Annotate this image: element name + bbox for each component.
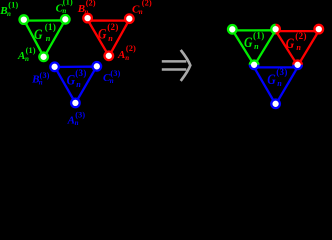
node A_n^(2) [105, 52, 114, 61]
svg-text:(1): (1) [45, 22, 57, 32]
label G_n^(1) right [244, 31, 265, 51]
node A_n^(3) [71, 99, 80, 108]
edges of left red triangle graph G_n^(2) [88, 21, 129, 57]
node B_n^(2) [83, 14, 92, 23]
svg-text:n: n [296, 43, 301, 52]
svg-text:n: n [25, 55, 29, 63]
svg-text:(1): (1) [8, 0, 18, 9]
right red corner node C_n^(2) [315, 25, 324, 34]
node A_n^(1) [39, 53, 48, 62]
svg-text:(3): (3) [75, 68, 87, 78]
edges of left green triangle graph G_n^(1) [24, 20, 65, 57]
svg-text:n: n [110, 77, 114, 85]
node B_n^(3) [50, 63, 59, 72]
edges of left blue triangle graph G_n^(3) [55, 67, 97, 104]
label G_n^(2) right [286, 31, 307, 52]
node C_n^(3) [93, 62, 102, 71]
svg-text:G: G [244, 34, 253, 51]
svg-text:n: n [75, 119, 79, 127]
svg-text:(1): (1) [26, 46, 36, 55]
merged node C_n^(1)=B_n^(2) green/red [271, 25, 280, 34]
svg-text:(2): (2) [142, 0, 152, 8]
svg-text:n: n [277, 79, 282, 88]
svg-text:(1): (1) [63, 0, 73, 7]
svg-text:G: G [98, 25, 107, 42]
node C_n^(2) [125, 14, 134, 23]
svg-text:n: n [125, 54, 129, 62]
svg-text:n: n [46, 34, 51, 43]
svg-text:(2): (2) [86, 0, 96, 7]
label G_n^(3) right [267, 67, 288, 88]
merged node A_n^(2)=C_n^(3) red/blue [293, 61, 302, 70]
svg-text:(2): (2) [107, 22, 119, 32]
svg-text:(3): (3) [75, 111, 85, 120]
svg-text:G: G [267, 70, 276, 87]
svg-text:(3): (3) [276, 67, 288, 77]
svg-text:(1): (1) [253, 31, 265, 41]
svg-text:G: G [34, 26, 43, 43]
svg-text:(3): (3) [110, 69, 120, 78]
svg-text:(2): (2) [295, 31, 307, 41]
node B_n^(1) [20, 15, 29, 24]
right green corner node B_n^(1) [228, 25, 237, 34]
svg-text:n: n [139, 8, 143, 16]
svg-text:n: n [108, 34, 113, 43]
svg-text:n: n [62, 7, 66, 15]
edges of right green triangle graph G_n^(1) [233, 30, 276, 65]
svg-text:(2): (2) [126, 44, 136, 53]
merged node A_n^(1)=B_n^(3) green/blue [250, 61, 259, 70]
double arrow (Rightarrow) [162, 50, 191, 81]
svg-text:G: G [67, 71, 76, 88]
edges of right blue triangle graph G_n^(3) [254, 67, 297, 104]
svg-text:n: n [7, 10, 11, 18]
node C_n^(1) [61, 15, 70, 24]
svg-text:n: n [84, 8, 88, 16]
svg-text:G: G [286, 35, 295, 52]
edges of right red triangle graph G_n^(2) [276, 31, 319, 66]
svg-text:A: A [117, 49, 125, 61]
right blue corner node A_n^(3) [271, 100, 280, 109]
svg-text:n: n [76, 80, 81, 89]
svg-text:n: n [254, 42, 259, 51]
svg-text:(3): (3) [40, 71, 50, 80]
